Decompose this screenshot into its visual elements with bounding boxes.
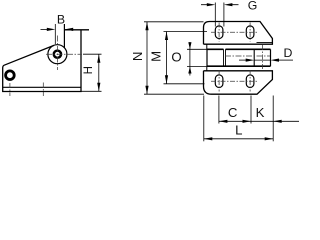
H dimension line (98, 54, 100, 91)
D right tail (279, 59, 293, 61)
svg-text:N: N (130, 52, 145, 62)
B right arrow (65, 28, 74, 31)
band top edge (207, 48, 271, 50)
left view base plate inner line (3, 86, 81, 88)
K right arrow (273, 120, 282, 123)
band bottom edge (207, 65, 271, 67)
right view top flange outline (204, 22, 273, 45)
band left edge (206, 49, 208, 66)
G extension lines (215, 3, 224, 27)
L right arrow (265, 137, 274, 140)
C right arrow (243, 120, 252, 123)
svg-text:K: K (256, 105, 265, 120)
D dimension line left (239, 59, 247, 61)
bottom slot vertical centerlines (219, 71, 250, 92)
lug vertical centerline (9, 83, 11, 96)
dimension B line (41, 28, 48, 30)
knuckle divider (253, 49, 255, 66)
D right arrow (271, 59, 280, 62)
B left extension line (54, 24, 56, 44)
N bottom arrow (145, 86, 148, 95)
knuckle gap lines (224, 49, 226, 66)
top slot left (215, 26, 223, 39)
G dimension line (201, 4, 239, 6)
boss outer circle (48, 45, 67, 64)
L left extension line (203, 96, 205, 142)
svg-text:B: B (57, 13, 65, 27)
M bottom arrow (165, 75, 168, 84)
C-K extension lines (219, 96, 251, 124)
M dimension line (166, 32, 168, 84)
O bottom arrow (188, 67, 191, 74)
N top extension line (144, 21, 204, 23)
bottom slot right (246, 75, 254, 88)
left view outline (3, 30, 89, 92)
M top extension line (164, 31, 208, 33)
chamfer edge line (257, 42, 273, 44)
L right extension line (272, 96, 274, 142)
bottom slot left (215, 75, 223, 88)
L dimension line (204, 138, 273, 140)
band right edge (270, 49, 272, 66)
O dimension line (189, 42, 191, 76)
D left arrow (246, 59, 255, 62)
hidden hole centerline (42, 83, 44, 97)
H bottom extension line (81, 90, 102, 92)
L left arrow (204, 137, 213, 140)
C-K dimension line (219, 120, 299, 122)
B left arrow (47, 28, 56, 31)
svg-text:O: O (171, 50, 181, 65)
svg-text:L: L (235, 123, 242, 138)
boss horizontal centerline (46, 53, 82, 55)
right view bottom flange outline (204, 71, 273, 94)
bushing ring (54, 51, 61, 58)
top slot right (246, 26, 254, 39)
H bottom arrow (97, 83, 100, 92)
svg-text:H: H (83, 66, 95, 74)
svg-text:C: C (228, 105, 238, 120)
lug hole ring (6, 71, 15, 80)
svg-text:D: D (283, 46, 292, 60)
N top arrow (145, 22, 148, 31)
G right arrow (224, 3, 233, 6)
O top extension line (187, 48, 207, 50)
N dimension line (146, 22, 148, 94)
O bottom extension line (187, 66, 207, 68)
H top extension line (83, 53, 102, 55)
D vertical centerline (261, 45, 263, 70)
N bottom extension line (144, 93, 204, 95)
top slot vertical centerlines (219, 23, 250, 43)
left view plate front edge (63, 24, 65, 48)
G left arrow (207, 3, 216, 6)
H top arrow (97, 54, 100, 63)
top slots horizontal centerline (211, 31, 258, 33)
flange-band connector left bottom (206, 66, 208, 71)
flange-band connector left top (206, 44, 208, 49)
boss vertical centerline (56, 36, 58, 71)
svg-text:G: G (248, 0, 258, 12)
D middle line (254, 59, 270, 61)
O top arrow (188, 42, 191, 49)
svg-text:M: M (148, 51, 163, 62)
band horizontal centerline (225, 55, 270, 57)
C left arrow (219, 120, 228, 123)
M top arrow (165, 32, 168, 41)
M bottom extension line (164, 83, 205, 85)
bottom slots horizontal centerline (211, 80, 258, 82)
